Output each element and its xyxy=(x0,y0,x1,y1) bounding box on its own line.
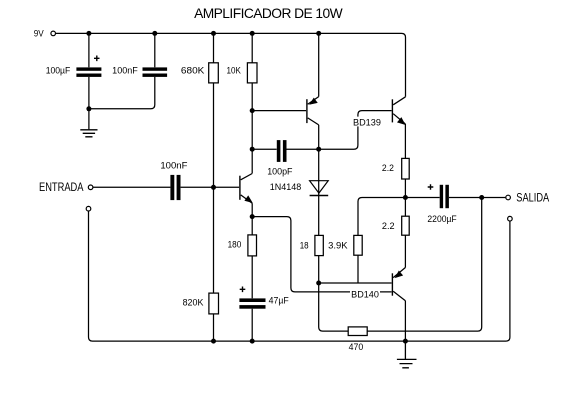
wire bias line to BD140 base xyxy=(319,282,392,284)
capacitor C2 100nF plates xyxy=(143,67,168,70)
svg-text:BD140: BD140 xyxy=(351,290,379,300)
resistor R5 18 body xyxy=(315,235,323,255)
resistor R8 2.2 body xyxy=(402,216,410,235)
transistor Q1 base bar xyxy=(239,176,241,200)
transistor Q4 emitter arrow PNP xyxy=(395,271,402,278)
label BD140 background xyxy=(350,289,380,299)
label C6 plus xyxy=(428,184,434,190)
svg-text:180: 180 xyxy=(228,239,242,249)
wire feedback from node down through R9 to output xyxy=(319,198,482,332)
junction input node ENTRADA-R1-R3 xyxy=(211,185,216,190)
wire C1 bottom lead xyxy=(88,77,90,129)
wire Q2 base wire xyxy=(252,110,306,112)
svg-text:2.2: 2.2 xyxy=(382,163,394,173)
svg-text:3.9K: 3.9K xyxy=(328,241,347,251)
transistor Q2 emitter arrow PNP xyxy=(310,98,318,104)
transistor Q4 emitter lead xyxy=(393,268,405,278)
wire R2 top lead xyxy=(251,33,253,62)
svg-text:1N4148: 1N4148 xyxy=(270,182,301,192)
capacitor C5 100pF plates xyxy=(277,140,281,162)
wire C4 bottom lead xyxy=(251,309,253,341)
wire top supply rail xyxy=(56,33,406,96)
transistor Q2 emitter lead xyxy=(308,97,319,105)
wire C5 left lead xyxy=(252,148,277,150)
wire R1 top lead xyxy=(213,33,215,62)
wire R5 bottom lead xyxy=(318,256,320,283)
wire R4 top lead xyxy=(251,217,253,235)
resistor R4 180 body xyxy=(248,235,257,256)
resistor R2 10K body xyxy=(247,63,257,83)
transistor Q4 BD140 base bar xyxy=(391,273,393,295)
resistor R6 3.9K body xyxy=(354,235,362,255)
capacitor C4 47uF plates xyxy=(239,298,265,302)
node ENTRADA ground terminal xyxy=(86,206,91,211)
node ENTRADA input terminal xyxy=(88,185,93,190)
wire R7 bottom to output node xyxy=(404,179,406,216)
svg-text:SALIDA: SALIDA xyxy=(516,192,549,204)
node SALIDA ground terminal xyxy=(508,216,513,221)
wire node to BD139 base xyxy=(319,111,392,150)
junction R5-R6-feedback node xyxy=(316,281,321,286)
svg-text:47µF: 47µF xyxy=(269,296,290,306)
diode D1 triangle xyxy=(310,181,329,193)
transistor Q1 emitter lead xyxy=(241,195,253,203)
wire Q1E node to BD140 base xyxy=(252,217,391,292)
svg-text:2200µF: 2200µF xyxy=(427,214,457,224)
junction Q1 emitter node xyxy=(250,214,255,219)
wire bottom ground rail xyxy=(89,211,510,341)
transistor Q3 BD139 base bar xyxy=(391,99,393,122)
junction C5 left node xyxy=(250,147,255,152)
transistor Q4 collector lead xyxy=(393,291,405,300)
junction rail-R680K xyxy=(211,31,216,36)
label BD139 background xyxy=(352,117,382,127)
junction rail-C4 xyxy=(250,339,255,344)
wire C2 return to ground node xyxy=(89,77,155,109)
svg-text:820K: 820K xyxy=(183,297,204,307)
wire Q4 collector down xyxy=(404,301,406,341)
svg-text:100pF: 100pF xyxy=(267,166,293,176)
junction rail-C1 xyxy=(86,31,91,36)
svg-text:18: 18 xyxy=(300,240,309,250)
junction output node xyxy=(403,195,408,200)
wire C1 top lead xyxy=(88,33,90,67)
transistor Q3 emitter lead xyxy=(393,114,405,124)
capacitor C6 2200uF plates xyxy=(440,185,443,208)
capacitor C1 100uF plates xyxy=(76,67,101,70)
transistor Q2 collector lead xyxy=(308,118,319,125)
junction rail-Q2 emitter xyxy=(316,31,321,36)
svg-text:100nF: 100nF xyxy=(160,160,188,170)
diode D1 cathode bar xyxy=(310,195,329,197)
ground GND1 xyxy=(80,130,97,137)
node 9V terminal xyxy=(51,31,56,36)
transistor Q1 emitter arrow xyxy=(245,196,252,203)
svg-text:BD139: BD139 xyxy=(353,117,381,127)
junction Q2C-C5-D1 node xyxy=(316,147,321,152)
wire R4 bottom to C4 xyxy=(251,256,253,298)
transistor Q3 emitter arrow NPN xyxy=(398,118,405,125)
junction rail-C2 xyxy=(152,31,157,36)
wire D1 anode-cathode line xyxy=(318,149,320,235)
node SALIDA output terminal xyxy=(506,195,511,200)
resistor R7 2.2 body xyxy=(402,158,410,179)
svg-text:ENTRADA: ENTRADA xyxy=(39,182,84,194)
resistor R3 820K body xyxy=(209,293,219,314)
wire Q1 emitter to node xyxy=(251,203,253,216)
wire R3 bottom lead xyxy=(213,314,215,341)
svg-text:680K: 680K xyxy=(181,65,205,75)
svg-text:100µF: 100µF xyxy=(46,66,71,76)
resistor R1 680K body xyxy=(209,63,219,83)
junction rail-R3 xyxy=(211,339,216,344)
wire output node to R6 top xyxy=(358,198,405,236)
svg-text:2.2: 2.2 xyxy=(382,221,395,231)
wire Q2 collector down xyxy=(318,125,320,149)
wire R2 bottom to Q1 collector xyxy=(251,83,253,173)
junction R2-Q1C-Q2B node xyxy=(250,108,255,113)
wire R6 bottom lead xyxy=(357,255,359,283)
transistor Q2 base bar xyxy=(306,99,308,123)
label C1 plus xyxy=(94,56,100,62)
wire Q3 emitter to R7 xyxy=(404,124,406,158)
junction rail-Q4C ground node xyxy=(403,339,408,344)
wire R8 bottom to Q4 emitter xyxy=(404,235,406,267)
wire input line xyxy=(93,186,239,188)
wire C2 top lead xyxy=(154,33,156,67)
wire output line right xyxy=(405,197,505,199)
junction C1-C2 ground node xyxy=(86,106,91,111)
wire Q2 emitter to rail xyxy=(318,33,320,96)
wire R1 bottom to input node to R3 top xyxy=(213,83,215,293)
label C4 plus xyxy=(240,287,246,293)
svg-text:9V: 9V xyxy=(34,28,44,38)
transistor Q1 collector lead xyxy=(241,174,253,180)
wire C5 right lead xyxy=(287,148,319,150)
svg-text:470: 470 xyxy=(349,342,364,352)
transistor Q3 collector lead xyxy=(393,97,405,105)
ground GND2 xyxy=(397,341,417,368)
svg-text:10K: 10K xyxy=(227,65,241,75)
capacitor C3 100nF input plates xyxy=(170,175,174,200)
svg-text:100nF: 100nF xyxy=(112,66,138,76)
resistor R9 470 body xyxy=(348,327,367,336)
junction rail-R10K xyxy=(250,31,255,36)
svg-text:AMPLIFICADOR DE 10W: AMPLIFICADOR DE 10W xyxy=(194,6,343,21)
junction C6-SALIDA-feedback node xyxy=(479,195,484,200)
